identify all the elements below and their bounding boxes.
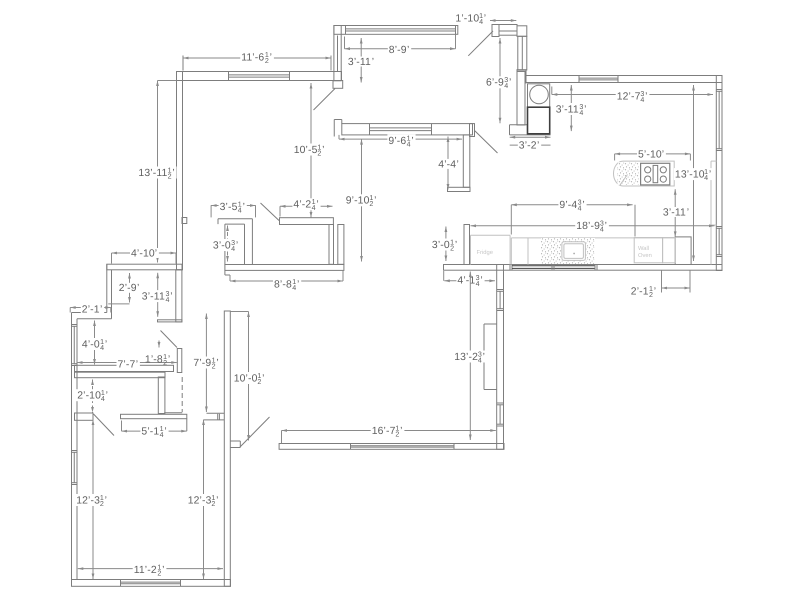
dim 1'-10 1/4 foyer	[490, 20, 516, 22]
dim 6'-9 3/4 foyer	[499, 38, 501, 123]
hall bottom lines	[207, 412, 225, 414]
dim 13'-11 1/2 west	[157, 81, 159, 263]
wall dining north	[334, 119, 342, 121]
svg-text:7’-9: 7’-9	[193, 358, 211, 369]
dim 2'-1 1/2 stub	[661, 270, 663, 292]
wall foyer east	[518, 36, 527, 70]
door swing mudroom	[161, 331, 178, 348]
svg-text:3’-11: 3’-11	[142, 292, 165, 303]
svg-text:2: 2	[157, 569, 161, 577]
dim 2'-9	[129, 273, 131, 303]
svg-text:12’-3: 12’-3	[76, 495, 100, 506]
svg-text:’: ’	[168, 355, 170, 366]
svg-text:2’-9: 2’-9	[119, 283, 137, 294]
svg-text:4: 4	[478, 356, 482, 364]
svg-text:’: ’	[584, 104, 586, 115]
closet box on east wall	[484, 323, 497, 325]
svg-text:Fridge: Fridge	[477, 249, 493, 256]
svg-text:6’-9: 6’-9	[486, 78, 504, 89]
wall kitchen north exterior	[526, 76, 722, 83]
dim 8'-9 entry	[345, 48, 456, 50]
svg-text:’: ’	[105, 495, 107, 506]
svg-text:2: 2	[395, 430, 399, 438]
svg-text:2’-1: 2’-1	[82, 304, 100, 315]
svg-text:4: 4	[101, 395, 105, 403]
svg-text:5’-1: 5’-1	[141, 427, 159, 438]
svg-text:’: ’	[162, 565, 164, 576]
svg-text:’: ’	[322, 145, 324, 156]
window east lower wing lower	[497, 403, 502, 426]
svg-text:’: ’	[709, 170, 711, 181]
dim 8'-8 1/4 living south	[230, 280, 343, 282]
wall south exterior bedroom	[72, 580, 231, 587]
dim 7'-9 1/2 hall	[205, 314, 207, 413]
svg-text:4: 4	[704, 174, 708, 182]
door jamb bump on west wall	[182, 218, 187, 224]
door swing closet hall	[261, 203, 280, 221]
counter segment right of wall oven	[663, 238, 676, 263]
svg-text:4’-1: 4’-1	[457, 275, 475, 286]
svg-text:’: ’	[509, 78, 511, 89]
svg-text:4’-4: 4’-4	[438, 159, 456, 170]
jamb wall mudroom door	[177, 349, 182, 373]
svg-text:’: ’	[582, 200, 584, 211]
svg-text:Oven: Oven	[638, 252, 652, 259]
wall stub fridge west	[464, 225, 470, 265]
mudroom south double wall upper	[75, 365, 174, 371]
svg-text:’: ’	[455, 240, 457, 251]
svg-text:’: ’	[400, 426, 402, 437]
svg-text:2’-1: 2’-1	[631, 286, 649, 297]
svg-text:’: ’	[605, 221, 607, 232]
svg-text:13’-10: 13’-10	[675, 170, 705, 181]
window in long south wall	[351, 444, 455, 448]
svg-text:2: 2	[257, 378, 261, 386]
wall south long (16-7half)	[279, 444, 504, 450]
dim 10'-0 1/2	[248, 312, 250, 441]
jamb block at living room door	[333, 81, 343, 89]
counter right side of kitchen	[710, 161, 712, 264]
window dining north	[370, 124, 432, 134]
dim 12'-3 1/2 right	[203, 420, 205, 580]
svg-text:4: 4	[476, 280, 480, 288]
bench shelf bedroom2	[121, 414, 187, 418]
dim 4'-10	[112, 252, 177, 254]
dim 12'-7 3/4 kitchen top	[552, 94, 713, 96]
corner block foyer NE	[517, 26, 527, 37]
dim 4'-1 3/4 below fridge	[443, 271, 445, 281]
sink basin	[562, 242, 586, 261]
dim 3'-0 1/2 fridge side	[445, 227, 447, 262]
svg-text:4: 4	[640, 96, 644, 104]
svg-text:8’-8: 8’-8	[274, 279, 292, 290]
svg-text:’: ’	[106, 391, 108, 402]
cooktop box with burners	[641, 163, 670, 185]
svg-text:4: 4	[231, 245, 235, 253]
dim 4'-4	[447, 137, 449, 190]
wall oven box	[634, 238, 662, 263]
svg-text:’: ’	[262, 373, 264, 384]
window south wall	[121, 580, 181, 585]
svg-text:9’-10: 9’-10	[346, 196, 370, 207]
svg-text:’: ’	[662, 149, 664, 160]
svg-text:12’-7: 12’-7	[617, 91, 641, 102]
svg-text:’: ’	[136, 359, 138, 370]
svg-text:3’-5: 3’-5	[220, 202, 238, 213]
svg-text:2: 2	[369, 200, 373, 208]
svg-text:2: 2	[211, 500, 215, 508]
svg-text:2: 2	[163, 359, 167, 367]
svg-text:4: 4	[166, 296, 170, 304]
svg-text:4’-10: 4’-10	[131, 248, 155, 259]
svg-text:’: ’	[216, 495, 218, 506]
svg-text:3’-11: 3’-11	[348, 57, 371, 68]
svg-text:’: ’	[484, 14, 486, 25]
wall living south	[225, 265, 344, 271]
window kitchen north	[579, 76, 618, 82]
wall kitchen-dining divider	[517, 71, 525, 125]
wall living-room west exterior	[177, 72, 183, 270]
svg-text:2: 2	[168, 172, 172, 180]
dim 4'-2 1/4	[280, 205, 333, 207]
svg-text:2: 2	[212, 362, 216, 370]
window living-room north	[229, 72, 290, 80]
wall stub 4-4 with foot	[463, 135, 470, 187]
dim 9'-6 1/4 dining	[339, 138, 462, 140]
dim 13'-2 3/4	[469, 272, 471, 441]
window entry north	[346, 26, 456, 33]
mudroom south double wall lower	[75, 372, 166, 378]
svg-text:4’-2: 4’-2	[293, 200, 311, 211]
dim 2'-1 step	[70, 307, 111, 309]
svg-text:10’-0: 10’-0	[234, 373, 258, 384]
door swing living room	[314, 89, 336, 111]
wall bedroom2 west exterior	[71, 313, 73, 587]
dim 9'-10 1/2	[361, 139, 363, 261]
window east lower wing upper	[497, 290, 502, 311]
svg-text:11’-2: 11’-2	[134, 565, 157, 576]
wall living east / kitchen west pair	[329, 225, 334, 265]
svg-text:8’-9: 8’-9	[389, 45, 407, 56]
svg-text:18’-9: 18’-9	[576, 221, 600, 232]
svg-text:12’-3: 12’-3	[188, 495, 212, 506]
svg-text:4: 4	[160, 431, 164, 439]
svg-text:’: ’	[654, 286, 656, 297]
svg-text:’: ’	[164, 427, 166, 438]
svg-text:’: ’	[537, 141, 539, 152]
dim 12'-3 1/2 left	[92, 420, 94, 580]
svg-text:’: ’	[411, 136, 413, 147]
dim 3'-2 kitchen entrance	[510, 136, 551, 138]
oven box dark	[528, 107, 550, 134]
sink surround stipple	[541, 238, 595, 264]
closet wall bedroom2	[158, 377, 165, 414]
svg-text:’: ’	[105, 339, 107, 350]
svg-text:’: ’	[372, 57, 374, 68]
door swing entry	[468, 31, 493, 56]
svg-text:3’-11: 3’-11	[663, 207, 686, 218]
svg-text:11’-6: 11’-6	[241, 52, 264, 63]
svg-text:4: 4	[312, 204, 316, 212]
svg-text:’: ’	[155, 248, 157, 259]
svg-text:13’-2: 13’-2	[454, 352, 478, 363]
svg-text:4: 4	[292, 284, 296, 292]
svg-text:4: 4	[479, 18, 483, 26]
svg-text:’: ’	[374, 196, 376, 207]
door swing bedroom3	[240, 417, 270, 447]
dim 10'-5 1/2	[310, 83, 312, 218]
svg-text:’: ’	[170, 292, 172, 303]
closet by living room	[218, 218, 252, 220]
svg-text:3’-11: 3’-11	[556, 104, 579, 115]
svg-text:’: ’	[137, 283, 139, 294]
wall stub kitchen SE (2-1half)	[675, 237, 691, 265]
dim 11'-2 1/2 south	[78, 568, 223, 570]
svg-text:2: 2	[317, 149, 321, 157]
wall dining south-east chunk	[510, 124, 528, 126]
svg-text:13’-11: 13’-11	[138, 168, 167, 179]
dim 5'-1 1/4 bench	[122, 430, 187, 432]
svg-text:10’-5: 10’-5	[294, 145, 318, 156]
window in kitchen south wall below sink	[509, 265, 511, 271]
svg-text:’: ’	[483, 352, 485, 363]
closet rod dashed line	[181, 377, 183, 412]
wall bedroom east (stair wall)	[224, 311, 230, 586]
svg-text:4: 4	[504, 82, 508, 90]
wall east lower wing	[497, 265, 504, 450]
dim 5'-10 island	[615, 153, 691, 155]
svg-text:3’-0: 3’-0	[432, 240, 450, 251]
svg-text:3’-0: 3’-0	[213, 240, 231, 251]
svg-text:4: 4	[578, 205, 582, 213]
svg-text:4: 4	[600, 226, 604, 234]
dim 3'-11 entry	[360, 38, 362, 83]
dim 9'-4 3/4 counter	[511, 204, 632, 206]
svg-text:Wall: Wall	[638, 245, 649, 252]
window kitchen east upper	[717, 90, 721, 151]
svg-text:4’-0: 4’-0	[82, 339, 100, 350]
kitchen lower counter band	[471, 234, 511, 236]
dim 4'-0 1/4 mudroom	[94, 321, 96, 365]
dim 3'-5 1/4 closet	[211, 205, 255, 207]
dim 7'-7 and 1'-8 1/2	[77, 362, 177, 364]
svg-text:4: 4	[100, 344, 104, 352]
svg-text:4: 4	[238, 206, 242, 214]
svg-text:4: 4	[407, 140, 411, 148]
svg-text:2: 2	[265, 57, 269, 65]
jog wall to kitchen	[517, 70, 526, 72]
svg-text:2’-10: 2’-10	[77, 391, 101, 402]
svg-text:’: ’	[687, 207, 689, 218]
dim 2'-10 1/4	[92, 380, 94, 413]
svg-text:’: ’	[172, 168, 174, 179]
corner dining NE + door swing to kitchen	[475, 131, 498, 154]
svg-text:’: ’	[297, 279, 299, 290]
island counter with cooktop	[614, 161, 675, 186]
svg-text:16’-7: 16’-7	[372, 426, 396, 437]
svg-text:’: ’	[457, 159, 459, 170]
wall living-room north exterior	[177, 72, 342, 81]
dim 3'-0 3/4 closet inner	[227, 226, 229, 262]
svg-text:’: ’	[407, 45, 409, 56]
dim 3'-11 3/4 stove	[570, 85, 572, 131]
svg-text:3’-2: 3’-2	[519, 141, 537, 152]
wall stub above living room (entry west)	[334, 26, 341, 81]
dim 11'-6 1/2 top	[182, 56, 184, 71]
wall bedroom2 door piece	[75, 413, 94, 420]
svg-text:’: ’	[100, 304, 102, 315]
svg-text:5’-10: 5’-10	[638, 149, 662, 160]
window bedroom2 west lower	[72, 451, 76, 485]
wall west step (2-1 jog)	[106, 264, 108, 312]
svg-text:’: ’	[316, 200, 318, 211]
wall kitchen east exterior	[716, 76, 722, 271]
svg-text:’: ’	[243, 202, 245, 213]
dim 16'-7 1/2	[282, 430, 496, 432]
svg-text:’: ’	[645, 91, 647, 102]
dim 13'-10 1/4 kitchen height	[693, 85, 695, 261]
entry closet wall	[176, 270, 182, 322]
door swing bedroom2	[94, 414, 115, 436]
dim 3'-11 kitchen right	[674, 189, 676, 237]
svg-text:9’-4: 9’-4	[559, 200, 577, 211]
svg-text:’: ’	[236, 240, 238, 251]
svg-text:’: ’	[270, 52, 272, 63]
wall entry north (8-9 wall)	[334, 26, 458, 35]
svg-text:’: ’	[480, 275, 482, 286]
svg-text:2: 2	[100, 500, 104, 508]
dim 3'-11 3/4 entry closet	[157, 273, 159, 317]
svg-text:’: ’	[216, 358, 218, 369]
door jog wall N	[230, 440, 240, 442]
wall entry-hall south	[107, 264, 182, 270]
dim 18'-9 3/4	[471, 225, 715, 227]
svg-text:7’-7: 7’-7	[118, 359, 136, 370]
svg-text:1’-8: 1’-8	[145, 355, 163, 366]
stove column upper box with cooktop circle	[528, 84, 550, 107]
svg-text:9’-6: 9’-6	[388, 136, 406, 147]
svg-text:2: 2	[450, 244, 454, 252]
svg-text:1’-10: 1’-10	[455, 14, 479, 25]
window bedroom2 west upper	[72, 325, 76, 366]
wall foyer north with jamb	[492, 25, 499, 37]
svg-text:4: 4	[579, 109, 583, 117]
wall kitchen south	[444, 265, 723, 271]
window kitchen east lower	[717, 227, 721, 257]
svg-text:2: 2	[649, 291, 653, 299]
wall closet north (4-2quarter wall)	[280, 218, 334, 225]
